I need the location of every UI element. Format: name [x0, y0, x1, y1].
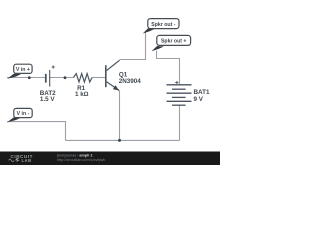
junction dot emitter/rail	[118, 139, 121, 142]
node dot on input wire	[28, 76, 31, 79]
flag V in +	[7, 64, 32, 79]
wire: collector to Spkr out -	[120, 33, 146, 60]
battery BAT1	[167, 85, 192, 105]
wire: R1 to Q1 base	[92, 77, 105, 79]
node dot between BAT2 and R1	[64, 76, 67, 79]
wire: bottom rail	[66, 139, 180, 141]
svg-text:Spkr out +: Spkr out +	[161, 39, 187, 45]
wire: Spkr out + to BAT1 top	[157, 51, 180, 85]
svg-text:1.5 V: 1.5 V	[40, 96, 56, 103]
wire: step up to V in -	[7, 122, 66, 141]
resistor R1	[74, 74, 93, 82]
battery BAT2	[46, 65, 55, 86]
footer bar	[0, 152, 220, 166]
svg-text:BAT1: BAT1	[194, 89, 210, 96]
svg-text:V in +: V in +	[16, 67, 30, 73]
svg-text:jennysunas / ampli 2: jennysunas / ampli 2	[56, 153, 92, 157]
svg-text:V in -: V in -	[17, 111, 30, 117]
emitter arrowhead	[113, 85, 119, 90]
svg-text:2N3904: 2N3904	[119, 78, 142, 85]
wire: V in + to BAT2	[7, 77, 46, 79]
wire: emitter down to rail	[119, 91, 121, 141]
wire: BAT1 bottom to ground rail	[179, 105, 181, 140]
flag Spkr out +	[152, 35, 191, 51]
svg-text:9 V: 9 V	[194, 96, 204, 103]
flag Spkr out -	[143, 19, 179, 34]
wire: BAT2 to R1	[50, 77, 74, 79]
svg-text:LAB: LAB	[22, 158, 32, 163]
svg-text:1 kΩ: 1 kΩ	[75, 91, 89, 98]
BAT1 plus sign	[175, 81, 178, 84]
svg-text:http://circuitlab.com/c/cvfpwk: http://circuitlab.com/c/cvfpwk	[57, 158, 105, 162]
transistor Q1	[106, 60, 120, 90]
svg-text:Spkr out -: Spkr out -	[151, 22, 175, 28]
flag V in -	[7, 108, 32, 122]
